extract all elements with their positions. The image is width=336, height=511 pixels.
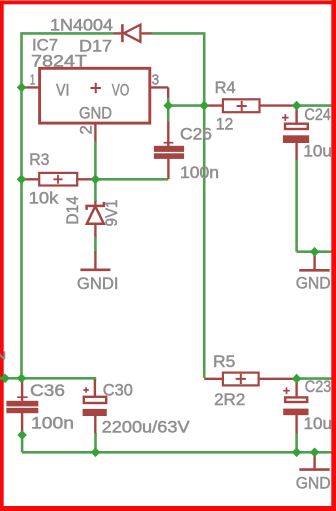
border frame left side: [0, 0, 4, 511]
ground GND right: [299, 269, 329, 272]
node pin3/C26 junction: [163, 101, 173, 111]
wire long middle vertical: [203, 32, 206, 378]
svg-text:R4: R4: [215, 78, 236, 97]
svg-text:2R2: 2R2: [214, 390, 245, 409]
node pin1 junction: [17, 83, 27, 93]
svg-text:C36: C36: [30, 381, 65, 400]
svg-text:GND: GND: [296, 273, 331, 292]
capacitor C23: [283, 387, 308, 415]
node C30 bus junction: [91, 448, 101, 458]
wire R4 right stub: [259, 104, 296, 106]
zener diode D14: [87, 202, 104, 224]
svg-text:10u: 10u: [304, 414, 333, 433]
wire diode left pin stub: [114, 32, 122, 34]
wire R5 left stub: [204, 378, 223, 380]
wire diode right pin stub: [142, 32, 152, 34]
wire C24 to GND node: [297, 250, 332, 253]
wire C30 top stub: [94, 380, 96, 398]
svg-text:12: 12: [216, 114, 234, 133]
capacitor C26: [154, 143, 184, 159]
node R4 input junction: [199, 101, 209, 111]
svg-text:C24: C24: [304, 105, 331, 124]
wire zener cathode stub: [94, 201, 96, 207]
capacitor C30: [83, 387, 107, 416]
wire C23 top stub: [295, 379, 297, 397]
wire pin 1 stub: [22, 86, 39, 88]
node left rail bus junction: [17, 374, 27, 384]
resistor R4: [223, 99, 260, 112]
svg-text:2: 2: [0, 351, 9, 360]
wire C36 bottom stub: [21, 413, 23, 435]
wire C30 bottom stub: [94, 416, 96, 434]
wire diode anode to right corner: [151, 32, 204, 35]
svg-text:VO: VO: [112, 81, 130, 100]
node C36 bottom junction: [17, 430, 27, 440]
diode D17: [122, 24, 140, 42]
svg-text:100n: 100n: [31, 413, 74, 432]
wire bottom bus: [22, 451, 332, 454]
svg-text:3: 3: [152, 71, 160, 88]
wire R4 output to right edge: [297, 104, 332, 107]
svg-text:C30: C30: [103, 381, 133, 400]
svg-text:GNDI: GNDI: [77, 274, 119, 293]
wire GND right stub: [313, 252, 315, 270]
svg-text:VI: VI: [56, 81, 70, 100]
wire C26 top stub: [167, 122, 169, 147]
wire C23 bottom stub: [295, 415, 297, 434]
wire R5 output to right edge: [297, 377, 332, 380]
svg-text:GND: GND: [79, 103, 112, 122]
wire pin 3 stub: [150, 87, 168, 97]
wire C36 top stub: [21, 378, 23, 401]
wire C24 bottom stub: [295, 143, 297, 160]
wire C23 bottom to bus: [295, 433, 298, 452]
svg-text:GND: GND: [296, 474, 331, 493]
svg-text:7824T: 7824T: [31, 51, 87, 70]
svg-text:10k: 10k: [29, 189, 59, 208]
wire C26 bottom stub: [167, 159, 169, 180]
svg-text:2200u/63V: 2200u/63V: [102, 418, 191, 437]
node R4/C24 junction: [292, 101, 302, 111]
wire zener anode to GNDI: [94, 235, 97, 253]
svg-text:1: 1: [30, 71, 36, 88]
resistor R3: [39, 173, 77, 186]
wire pin2 vertical down to zener: [94, 141, 97, 202]
node GND right junction: [310, 247, 320, 257]
node GND bottom junction: [310, 448, 320, 458]
node R3 left junction: [17, 175, 27, 185]
wire left bus at y378: [0, 378, 95, 381]
svg-text:R3: R3: [29, 150, 49, 169]
node C23 bus junction: [292, 448, 302, 458]
resistor R5: [223, 373, 259, 386]
capacitor C36: [6, 397, 38, 413]
op-amp U1: voltage regulator IC7 7824T box: [40, 68, 150, 123]
wire R3 node to C26 bottom: [95, 178, 168, 181]
node left edge bus junction: [0, 374, 10, 384]
wire R4 left stub: [204, 104, 223, 106]
wire C36 bottom down: [21, 435, 24, 453]
wire C24 bottom down: [295, 159, 298, 252]
node R3/zener junction: [91, 175, 101, 185]
svg-text:C23: C23: [305, 377, 332, 396]
wire top-left horizontal to diode: [22, 32, 114, 35]
svg-text:C26: C26: [180, 125, 212, 144]
svg-text:R5: R5: [213, 352, 235, 371]
wire C24 top stub: [295, 106, 297, 124]
wire GNDI stub: [94, 252, 96, 270]
svg-text:100n: 100n: [180, 163, 219, 182]
svg-text:10u: 10u: [303, 141, 332, 160]
wire pin3 down to node: [167, 97, 170, 123]
svg-text:1N4004: 1N4004: [50, 15, 113, 34]
wire R3 right stub: [77, 178, 95, 180]
wire pin 2 stub: [94, 123, 96, 142]
wire R3 left stub: [22, 178, 40, 180]
node R5/C23 junction: [292, 374, 302, 384]
wire node to node at y105: [168, 104, 204, 107]
border frame top/right/bottom: [0, 0, 336, 4]
wire R5 right stub: [259, 378, 297, 380]
wire left vertical rail: [20, 32, 23, 378]
wire GND bottom-right stub: [313, 452, 315, 469]
wire zener anode stub: [94, 224, 96, 237]
svg-text:2: 2: [77, 125, 96, 134]
ground GND bottom right: [299, 468, 329, 471]
wire C30 bottom to bus: [94, 433, 97, 452]
ground GNDI: [80, 268, 110, 271]
svg-text:9V1: 9V1: [102, 200, 121, 227]
svg-text:D14: D14: [63, 196, 82, 225]
capacitor C24: [282, 114, 309, 143]
